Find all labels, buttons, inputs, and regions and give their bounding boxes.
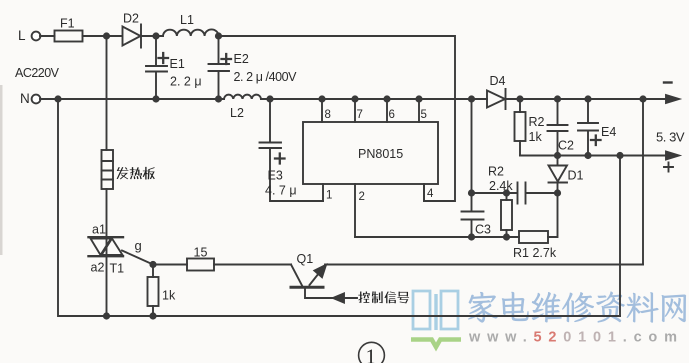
svg-text:D4: D4	[490, 74, 506, 88]
triac T1	[89, 236, 124, 238]
svg-text:8: 8	[325, 109, 331, 121]
svg-text:L1: L1	[180, 13, 194, 27]
svg-text:E3: E3	[268, 169, 283, 183]
watermark logo book icon	[413, 291, 458, 330]
svg-text:R1 2.7k: R1 2.7k	[513, 246, 557, 260]
wire Q1 emitter to node	[325, 264, 643, 266]
svg-text:2. 2 μ: 2. 2 μ	[170, 75, 202, 89]
capacitor C2	[548, 99, 568, 156]
diode D2	[123, 25, 142, 48]
pin 1	[322, 184, 324, 201]
pin 2	[354, 184, 356, 237]
junction (419,99)	[415, 95, 422, 102]
wire node A right	[619, 156, 621, 317]
junction (153,316)	[149, 312, 156, 319]
svg-text:PN8015: PN8015	[358, 147, 403, 161]
svg-text:5: 5	[421, 109, 427, 121]
svg-text:AC220V: AC220V	[15, 66, 60, 80]
svg-text:E4: E4	[601, 125, 616, 139]
wire gate g	[122, 251, 153, 265]
svg-text:2.4k: 2.4k	[489, 179, 513, 193]
inductor L1	[163, 29, 218, 36]
pin 5	[418, 99, 420, 122]
junction (520,99)	[516, 95, 523, 102]
junction (643,99)	[639, 95, 646, 102]
wire N rail	[40, 98, 666, 100]
svg-text:a1: a1	[92, 223, 106, 237]
junction (153,264.5)	[149, 261, 156, 268]
junction (471.5,99)	[468, 95, 475, 102]
coupling capacitor	[518, 183, 526, 204]
terminal L	[32, 32, 41, 41]
output arrow plus	[666, 152, 679, 160]
svg-text:R2: R2	[529, 115, 545, 129]
svg-text:a2: a2	[91, 261, 105, 275]
capacitor E1	[146, 36, 167, 99]
wire Q1 base / control input	[305, 289, 357, 298]
wire +5.3V line	[520, 155, 666, 157]
output arrow minus	[666, 95, 679, 103]
diode D1	[549, 156, 568, 183]
svg-text:1: 1	[326, 190, 332, 202]
pin 4	[423, 184, 425, 201]
svg-text:N: N	[20, 91, 30, 106]
svg-text:R2: R2	[488, 165, 504, 179]
watermark text 家电维修资料网	[468, 292, 498, 323]
wire node 193	[472, 192, 558, 194]
svg-text:1k: 1k	[162, 289, 176, 303]
svg-text:2: 2	[359, 191, 365, 203]
diode D4	[487, 89, 506, 109]
junction (270,99)	[266, 95, 273, 102]
svg-text:L: L	[18, 28, 26, 43]
svg-text:F1: F1	[60, 17, 75, 31]
inductor L2	[224, 95, 261, 99]
resistor R1 2.7k	[519, 231, 548, 243]
svg-text:1: 1	[366, 345, 377, 363]
resistor R2 2.4k	[506, 193, 508, 237]
svg-text:g: g	[135, 238, 142, 253]
svg-text:D2: D2	[123, 12, 139, 26]
terminal N	[32, 95, 41, 104]
junction (557.5,155.5)	[554, 152, 561, 159]
figure number circle	[359, 342, 385, 363]
junction (218.5,36)	[215, 32, 222, 39]
pin 7	[354, 99, 356, 122]
junction (218.5,99)	[215, 95, 222, 102]
junction (471.5,237)	[468, 233, 475, 240]
junction (322,99)	[318, 95, 325, 102]
pin 8	[321, 99, 323, 122]
junction (557.5,193)	[554, 189, 561, 196]
svg-text:T1: T1	[110, 262, 125, 276]
heater element 发热板	[106, 36, 108, 237]
svg-text:2. 2 μ /400V: 2. 2 μ /400V	[234, 70, 298, 84]
junction (106.5,36)	[103, 32, 110, 39]
wire L rail	[40, 36, 455, 201]
label 发热板	[117, 167, 129, 179]
junction (557.5,99)	[554, 95, 561, 102]
svg-text:Q1: Q1	[297, 252, 314, 266]
junction (355,99)	[351, 95, 358, 102]
capacitor E4	[578, 99, 598, 156]
junction (506.5,237)	[503, 233, 510, 240]
svg-text:1k: 1k	[529, 130, 543, 144]
junction (106.5,316)	[103, 312, 110, 319]
junction (387,99)	[383, 95, 390, 102]
resistor R2 1k	[519, 99, 521, 156]
wire left drop + bottom rail	[58, 99, 620, 316]
svg-text:L2: L2	[230, 106, 244, 120]
wire node B right	[642, 99, 644, 265]
svg-text:5. 3V: 5. 3V	[656, 130, 685, 145]
junction (58,99)	[54, 95, 61, 102]
resistor 1k (gate)	[152, 265, 154, 317]
svg-text:15: 15	[194, 246, 208, 260]
svg-text:6: 6	[389, 109, 395, 121]
junction (588,155.5)	[584, 152, 591, 159]
label 控制信号	[358, 291, 370, 302]
junction (506.5,193)	[503, 189, 510, 196]
junction (471.5,193)	[468, 189, 475, 196]
svg-text:www.520101.com: www.520101.com	[468, 330, 684, 346]
svg-text:E2: E2	[234, 52, 249, 66]
IC U1 PN8015	[303, 122, 438, 184]
transistor Q1	[291, 265, 302, 286]
capacitor E2	[209, 36, 230, 99]
svg-text:4. 7 μ: 4. 7 μ	[265, 184, 297, 198]
svg-text:E1: E1	[170, 57, 185, 71]
pin 6	[386, 99, 388, 122]
svg-text:4: 4	[427, 188, 434, 200]
junction (588,99)	[584, 95, 591, 102]
svg-text:7: 7	[357, 109, 363, 121]
svg-text:C2: C2	[558, 139, 574, 153]
capacitor E3	[260, 99, 324, 201]
capacitor C3	[462, 99, 484, 237]
resistor 15	[153, 264, 291, 266]
junction (156,36)	[152, 32, 159, 39]
junction (156,99)	[152, 95, 159, 102]
wire pin2 net	[355, 184, 558, 237]
wire triac a2 down	[106, 237, 108, 316]
svg-text:D1: D1	[568, 169, 584, 183]
svg-text:C3: C3	[475, 223, 491, 237]
fuse F1	[55, 31, 83, 42]
junction (620,155.5)	[616, 152, 623, 159]
